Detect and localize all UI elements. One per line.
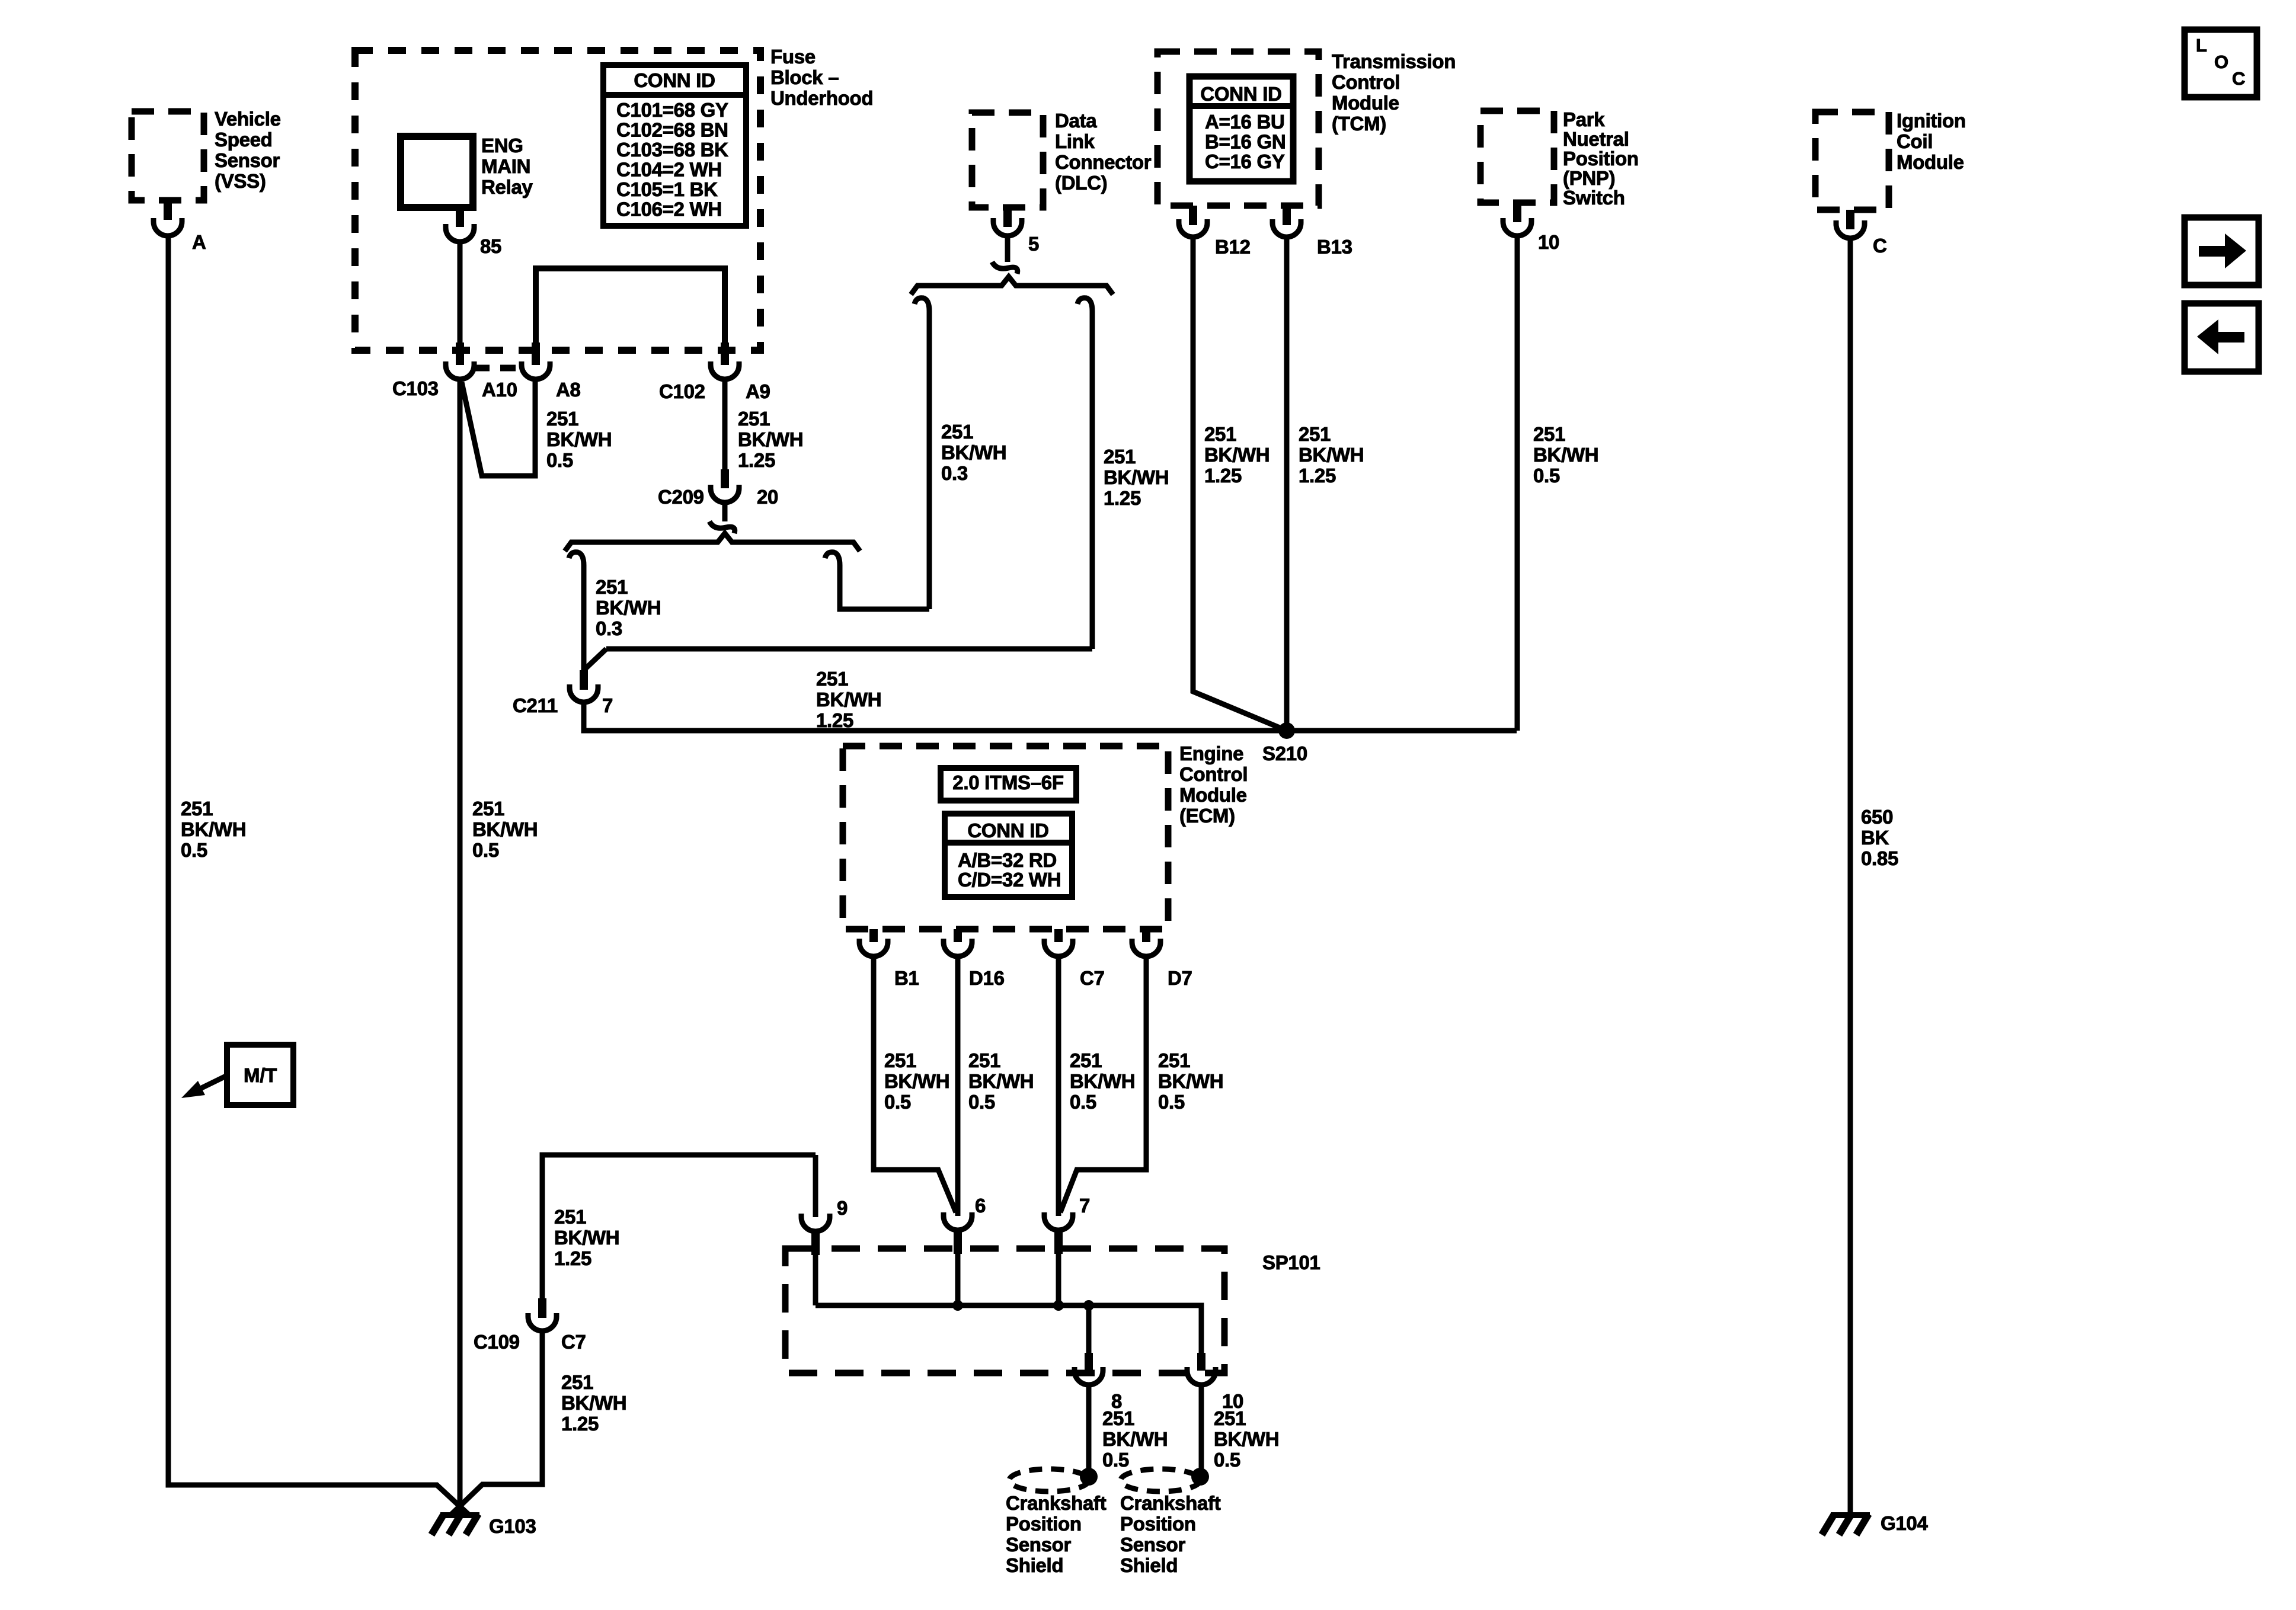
svg-text:MAIN: MAIN bbox=[481, 155, 530, 177]
connector pin C7 of ECM (stub+cup) bbox=[1054, 929, 1063, 942]
branch hook right (DLC) bbox=[1077, 298, 1092, 311]
svg-text:BK/WH: BK/WH bbox=[1214, 1428, 1279, 1450]
wire: C211 to S210 to PNP (251 BK/WH 1.25) bbox=[584, 701, 1517, 731]
connector pin D7 of ECM (stub+cup) bbox=[1142, 929, 1150, 942]
SP101 internal bus bbox=[816, 1305, 1201, 1353]
splice S210 junction dot bbox=[1278, 722, 1295, 739]
svg-text:0.5: 0.5 bbox=[181, 839, 207, 861]
svg-text:C102=68 BN: C102=68 BN bbox=[616, 119, 728, 141]
svg-text:1.25: 1.25 bbox=[1299, 465, 1336, 486]
svg-text:251: 251 bbox=[181, 798, 213, 820]
svg-text:Shield: Shield bbox=[1120, 1554, 1178, 1576]
svg-text:0.5: 0.5 bbox=[884, 1091, 911, 1113]
connector pin 10 of SP101 (stub+cup) bbox=[1197, 1353, 1205, 1371]
svg-text:BK/WH: BK/WH bbox=[561, 1392, 626, 1414]
svg-text:S210: S210 bbox=[1262, 742, 1307, 764]
wire: pin 9 entry bbox=[813, 1155, 818, 1217]
svg-text:BK/WH: BK/WH bbox=[884, 1070, 949, 1092]
svg-text:BK/WH: BK/WH bbox=[472, 818, 538, 840]
svg-text:A: A bbox=[192, 231, 206, 253]
svg-text:G104: G104 bbox=[1881, 1512, 1928, 1534]
svg-text:BK/WH: BK/WH bbox=[941, 441, 1006, 463]
CONN ID table (fuse block) bbox=[603, 65, 746, 226]
svg-text:650: 650 bbox=[1861, 806, 1893, 828]
wire: bus to pin 8 bbox=[1086, 1305, 1092, 1353]
wire: C103 down to G103 (251 BK/WH 0.5) bbox=[458, 379, 463, 1512]
svg-text:B=16 GN: B=16 GN bbox=[1205, 131, 1285, 153]
svg-text:Module: Module bbox=[1897, 151, 1964, 173]
svg-text:CONN ID: CONN ID bbox=[1200, 83, 1281, 105]
svg-text:BK/WH: BK/WH bbox=[1104, 466, 1169, 488]
bus junction dot pin6 bbox=[952, 1300, 963, 1311]
svg-text:(TCM): (TCM) bbox=[1332, 113, 1386, 135]
svg-text:Crankshaft: Crankshaft bbox=[1006, 1492, 1107, 1514]
shield terminal dot left bbox=[1080, 1468, 1098, 1486]
wire: C209 left branch down (251 BK/WH 0.3) bbox=[581, 565, 587, 670]
svg-text:251: 251 bbox=[968, 1049, 1000, 1071]
svg-text:251: 251 bbox=[1158, 1049, 1190, 1071]
svg-text:C103=68 BK: C103=68 BK bbox=[616, 139, 728, 161]
internal fuse block link A8 to A9 bbox=[536, 268, 725, 343]
connector pin D16 of ECM (stub+cup) bbox=[954, 929, 962, 942]
CONN ID table (ECM) bbox=[945, 814, 1072, 897]
svg-text:Switch: Switch bbox=[1563, 187, 1625, 209]
svg-text:7: 7 bbox=[602, 694, 613, 716]
connector pin 6 of SP101 (cup+stub) bbox=[944, 1212, 972, 1230]
component box: ENG MAIN Relay bbox=[401, 136, 473, 207]
svg-text:C/D=32 WH: C/D=32 WH bbox=[958, 869, 1061, 891]
svg-text:6: 6 bbox=[975, 1195, 986, 1217]
wire: ECM C7 down to SP101 pin 7 bbox=[1056, 956, 1061, 1216]
connector pin B1 of ECM (stub+cup) bbox=[869, 929, 878, 942]
svg-text:7: 7 bbox=[1079, 1195, 1090, 1217]
svg-text:10: 10 bbox=[1538, 231, 1559, 253]
svg-text:C7: C7 bbox=[1080, 967, 1105, 989]
svg-text:251: 251 bbox=[596, 576, 628, 598]
svg-text:Sensor: Sensor bbox=[1120, 1534, 1186, 1555]
svg-text:1.25: 1.25 bbox=[561, 1413, 599, 1435]
svg-text:251: 251 bbox=[1533, 423, 1565, 445]
svg-text:251: 251 bbox=[1204, 423, 1236, 445]
svg-text:1.25: 1.25 bbox=[738, 449, 775, 471]
wire: jumper A10 to A8 below fuse block bbox=[462, 380, 535, 476]
svg-text:C211: C211 bbox=[513, 694, 558, 716]
svg-text:Module: Module bbox=[1179, 784, 1247, 806]
svg-text:BK/WH: BK/WH bbox=[546, 428, 612, 450]
svg-text:251: 251 bbox=[561, 1371, 593, 1393]
svg-text:(ECM): (ECM) bbox=[1179, 805, 1235, 827]
crank sensor shield ellipse right bbox=[1121, 1469, 1200, 1491]
svg-text:251: 251 bbox=[884, 1049, 916, 1071]
svg-text:C7: C7 bbox=[561, 1331, 586, 1353]
crank sensor shield ellipse left bbox=[1009, 1469, 1089, 1491]
svg-text:Sensor: Sensor bbox=[1006, 1534, 1072, 1555]
wire: DLC right branch down bbox=[1090, 311, 1095, 649]
svg-text:Position: Position bbox=[1563, 148, 1639, 169]
svg-text:BK/WH: BK/WH bbox=[1158, 1070, 1223, 1092]
svg-text:(VSS): (VSS) bbox=[215, 170, 266, 192]
svg-text:0.5: 0.5 bbox=[968, 1091, 995, 1113]
svg-text:Sensor: Sensor bbox=[215, 149, 280, 171]
svg-text:2.0 ITMS–6F: 2.0 ITMS–6F bbox=[952, 772, 1063, 793]
connector C209 pin 20 (stub+cup) bbox=[721, 469, 729, 488]
svg-text:1.25: 1.25 bbox=[816, 709, 853, 731]
svg-text:C103: C103 bbox=[392, 377, 439, 399]
svg-text:BK/WH: BK/WH bbox=[968, 1070, 1034, 1092]
svg-text:Shield: Shield bbox=[1006, 1554, 1063, 1576]
wire below DLC pin 5 bbox=[1005, 236, 1011, 262]
svg-text:0.3: 0.3 bbox=[596, 617, 622, 639]
svg-text:Fuse: Fuse bbox=[770, 46, 816, 68]
module box: Ignition Coil Module bbox=[1815, 112, 1889, 210]
svg-text:(PNP): (PNP) bbox=[1563, 167, 1615, 189]
legend box L-O-C bbox=[2185, 30, 2257, 97]
svg-text:BK/WH: BK/WH bbox=[738, 428, 803, 450]
svg-text:251: 251 bbox=[1214, 1407, 1246, 1429]
wire: ECM D7 down to SP101 pin 7 bbox=[1060, 956, 1146, 1212]
svg-text:G103: G103 bbox=[489, 1515, 536, 1537]
svg-text:D16: D16 bbox=[969, 967, 1005, 989]
splice pack box SP101 bbox=[785, 1249, 1224, 1373]
svg-text:5: 5 bbox=[1028, 233, 1039, 255]
connector C102 pin A9 (stub+cup) bbox=[721, 343, 729, 365]
svg-text:251: 251 bbox=[1104, 446, 1136, 468]
bundle brace (DLC splice) bbox=[911, 277, 1113, 295]
connector pin 7 of SP101 (cup+stub) bbox=[1044, 1212, 1073, 1230]
svg-text:0.5: 0.5 bbox=[546, 449, 573, 471]
ground G104 bbox=[1848, 1511, 1853, 1515]
svg-text:Transmission: Transmission bbox=[1332, 50, 1456, 72]
wire below C209 bbox=[722, 502, 728, 521]
svg-text:SP101: SP101 bbox=[1262, 1251, 1320, 1273]
svg-text:Connector: Connector bbox=[1055, 151, 1152, 173]
svg-text:C101=68 GY: C101=68 GY bbox=[616, 99, 728, 121]
connector C211 pin 7 (stub+cup) bbox=[580, 670, 588, 690]
wire: ECM D16 down to SP101 pin 6 bbox=[955, 956, 961, 1216]
svg-text:BK/WH: BK/WH bbox=[1102, 1428, 1168, 1450]
svg-text:Park: Park bbox=[1563, 108, 1605, 130]
svg-text:Control: Control bbox=[1179, 763, 1248, 785]
svg-text:251: 251 bbox=[472, 798, 504, 820]
svg-text:C109: C109 bbox=[474, 1331, 520, 1353]
svg-text:C105=1 BK: C105=1 BK bbox=[616, 178, 718, 200]
svg-text:Crankshaft: Crankshaft bbox=[1120, 1492, 1221, 1514]
svg-text:Link: Link bbox=[1055, 130, 1095, 152]
connector pin B12 of TCM (stub+cup) bbox=[1189, 206, 1197, 225]
svg-text:Ignition: Ignition bbox=[1897, 110, 1966, 132]
dashed bar between C103 and A8 bbox=[474, 365, 520, 372]
svg-text:251: 251 bbox=[546, 408, 578, 430]
svg-text:251: 251 bbox=[1070, 1049, 1102, 1071]
wire: DLC left branch down bbox=[927, 311, 932, 609]
connector A8 (stub+cup) bbox=[532, 343, 540, 365]
svg-text:Relay: Relay bbox=[481, 176, 533, 198]
svg-text:Coil: Coil bbox=[1897, 130, 1933, 152]
svg-text:Control: Control bbox=[1332, 71, 1400, 93]
svg-text:251: 251 bbox=[1299, 423, 1331, 445]
box 2.0 ITMS-6F bbox=[941, 768, 1076, 801]
ground G103 bbox=[440, 1512, 479, 1518]
svg-text:0.5: 0.5 bbox=[1102, 1449, 1129, 1471]
svg-text:C=16 GY: C=16 GY bbox=[1205, 151, 1285, 172]
svg-text:A=16 BU: A=16 BU bbox=[1205, 111, 1285, 133]
branch hook left (C209) bbox=[569, 552, 584, 565]
breakout curl below C209 bbox=[709, 521, 735, 533]
svg-text:0.5: 0.5 bbox=[1158, 1091, 1185, 1113]
svg-text:Block –: Block – bbox=[770, 66, 839, 88]
svg-text:Position: Position bbox=[1120, 1513, 1196, 1535]
svg-text:CONN ID: CONN ID bbox=[967, 820, 1048, 841]
svg-text:Module: Module bbox=[1332, 92, 1399, 114]
svg-text:BK/WH: BK/WH bbox=[1204, 444, 1269, 466]
svg-text:BK/WH: BK/WH bbox=[816, 689, 881, 710]
component box M/T with arrow bbox=[227, 1045, 293, 1105]
wire: A9 down to C209 (251 BK/WH 1.25) bbox=[722, 379, 728, 469]
svg-text:20: 20 bbox=[757, 486, 778, 508]
svg-text:A/B=32 RD: A/B=32 RD bbox=[958, 849, 1057, 871]
svg-text:Position: Position bbox=[1006, 1513, 1082, 1535]
wire: relay 85 down to C103 bbox=[458, 242, 463, 344]
wire pin 9 to bus bbox=[813, 1255, 818, 1305]
branch hook left (DLC) bbox=[914, 298, 929, 311]
connector pin 8 of SP101 (stub+cup) bbox=[1085, 1353, 1093, 1371]
branch hook right (C209) bbox=[825, 552, 840, 565]
svg-text:C106=2 WH: C106=2 WH bbox=[616, 199, 722, 220]
svg-text:C102: C102 bbox=[659, 380, 705, 402]
svg-text:Underhood: Underhood bbox=[770, 87, 873, 109]
wire: C209 right branch to DLC left branch bbox=[840, 565, 929, 609]
svg-text:BK: BK bbox=[1861, 827, 1889, 849]
svg-text:0.5: 0.5 bbox=[1070, 1091, 1096, 1113]
svg-text:Nuetral: Nuetral bbox=[1563, 128, 1629, 150]
svg-text:1.25: 1.25 bbox=[1204, 465, 1242, 486]
wire: C109 down to G103 bbox=[450, 1330, 542, 1515]
connector pin 10 of PNP (stub+cup) bbox=[1513, 203, 1521, 222]
svg-text:251: 251 bbox=[738, 408, 770, 430]
svg-text:CONN ID: CONN ID bbox=[634, 69, 715, 91]
svg-text:1.25: 1.25 bbox=[1104, 487, 1141, 509]
svg-text:251: 251 bbox=[1102, 1407, 1134, 1429]
legend box right-arrow bbox=[2185, 217, 2259, 285]
svg-text:A8: A8 bbox=[556, 379, 581, 401]
svg-text:L: L bbox=[2196, 35, 2207, 56]
svg-text:BK/WH: BK/WH bbox=[1299, 444, 1364, 466]
wire: pin 10 to crank shield (251 BK/WH 0.5) bbox=[1199, 1385, 1204, 1477]
module box: Data Link Connector (DLC) bbox=[972, 113, 1043, 207]
connector pin C of ignition coil (stub+cup) bbox=[1846, 210, 1854, 229]
wire: B13 to S210 (251 BK/WH 1.25) bbox=[1284, 237, 1290, 731]
svg-text:O: O bbox=[2214, 52, 2228, 72]
svg-text:C209: C209 bbox=[658, 486, 704, 508]
svg-text:0.5: 0.5 bbox=[1214, 1449, 1240, 1471]
connector C109 pin C7 (stub+cup) bbox=[538, 1298, 546, 1318]
bus junction dot pin7 bbox=[1053, 1300, 1064, 1311]
svg-text:Engine: Engine bbox=[1179, 742, 1243, 764]
svg-text:251: 251 bbox=[941, 421, 973, 443]
svg-text:BK/WH: BK/WH bbox=[554, 1227, 619, 1249]
svg-text:D7: D7 bbox=[1168, 967, 1192, 989]
module box: Vehicle Speed Sensor (VSS) bbox=[132, 111, 204, 200]
svg-text:C: C bbox=[2232, 68, 2245, 89]
svg-text:0.3: 0.3 bbox=[941, 462, 968, 484]
connector C103 pin A10 (stub+cup) bbox=[456, 343, 464, 365]
connector pin A of VSS (stub+cup) bbox=[164, 200, 172, 220]
wire: B12 to S210 (251 BK/WH 1.25) bbox=[1193, 237, 1287, 731]
svg-text:(DLC): (DLC) bbox=[1055, 172, 1107, 194]
svg-text:M/T: M/T bbox=[244, 1064, 277, 1086]
module box: Fuse Block - Underhood bbox=[355, 50, 760, 350]
module box: Transmission Control Module (TCM) bbox=[1157, 52, 1319, 206]
svg-text:BK/WH: BK/WH bbox=[1533, 444, 1598, 466]
connector pin 5 of DLC (stub+cup) bbox=[1003, 207, 1012, 227]
svg-text:A9: A9 bbox=[746, 380, 770, 402]
wire: VSS pin A to G103 (251 BK/WH 0.5) bbox=[168, 236, 469, 1515]
svg-text:0.5: 0.5 bbox=[472, 839, 499, 861]
svg-text:251: 251 bbox=[816, 668, 848, 690]
svg-text:B12: B12 bbox=[1215, 236, 1251, 258]
svg-text:Vehicle: Vehicle bbox=[215, 108, 281, 130]
svg-text:Speed: Speed bbox=[215, 129, 273, 151]
wire: ECM B1 down to SP101 pin 6 bbox=[874, 956, 956, 1212]
wire pin 7 to bus bbox=[1056, 1254, 1061, 1305]
svg-text:C: C bbox=[1873, 235, 1887, 257]
svg-text:ENG: ENG bbox=[481, 135, 523, 156]
svg-text:0.85: 0.85 bbox=[1861, 847, 1898, 869]
legend box left-arrow bbox=[2185, 303, 2259, 372]
wire: pin 8 to crank shield (251 BK/WH 0.5) bbox=[1086, 1385, 1092, 1477]
connector pin B13 of TCM (stub+cup) bbox=[1283, 206, 1291, 225]
svg-text:B1: B1 bbox=[894, 967, 919, 989]
bus junction dot pin8 bbox=[1083, 1300, 1094, 1311]
wire: SP101 pin 9 run to C109 bbox=[542, 1155, 816, 1298]
svg-text:9: 9 bbox=[837, 1197, 848, 1219]
svg-text:A10: A10 bbox=[482, 379, 517, 401]
shield terminal dot right bbox=[1191, 1468, 1209, 1486]
svg-text:251: 251 bbox=[554, 1206, 586, 1228]
wire: PNP pin 10 down (251 BK/WH 0.5) bbox=[1515, 236, 1520, 731]
svg-text:1.25: 1.25 bbox=[554, 1247, 591, 1269]
bundle brace (C209 splice) bbox=[565, 533, 860, 551]
svg-text:B13: B13 bbox=[1317, 236, 1352, 258]
connector pin 9 of SP101 (cup+stub) bbox=[801, 1214, 830, 1231]
wire: ignition coil to G104 (650 BK 0.85) bbox=[1848, 238, 1853, 1512]
svg-text:Data: Data bbox=[1055, 110, 1097, 132]
wire: cross link C209-left to DLC-right bbox=[606, 646, 1092, 652]
CONN ID table (TCM) bbox=[1189, 76, 1293, 181]
svg-text:BK/WH: BK/WH bbox=[596, 597, 661, 619]
module box: Park Nuetral Position (PNP) Switch bbox=[1480, 111, 1554, 203]
module box: Engine Control Module (ECM) bbox=[843, 746, 1168, 929]
svg-text:C104=2 WH: C104=2 WH bbox=[616, 159, 722, 181]
svg-text:0.5: 0.5 bbox=[1533, 465, 1560, 486]
connector pin 85 of relay (stub+cup) bbox=[456, 207, 464, 227]
wire pin 6 to bus bbox=[955, 1254, 961, 1305]
svg-text:BK/WH: BK/WH bbox=[181, 818, 246, 840]
breakout curl below DLC pin 5 bbox=[992, 262, 1018, 274]
svg-text:85: 85 bbox=[480, 235, 501, 257]
svg-text:BK/WH: BK/WH bbox=[1070, 1070, 1135, 1092]
